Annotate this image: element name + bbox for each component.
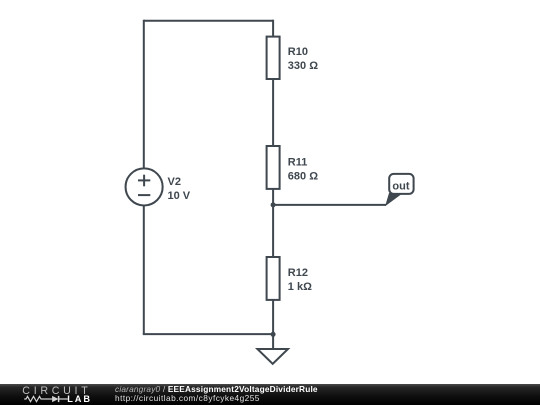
resistor R10 body bbox=[267, 37, 280, 79]
ground symbol triangle bbox=[257, 349, 288, 364]
label V2 value bbox=[168, 176, 191, 202]
label R11 value bbox=[288, 156, 318, 182]
wire top horizontal bbox=[144, 20, 273, 22]
footer credit line: user and circuit title bbox=[115, 385, 318, 393]
wire left lower (V2 negative terminal to bottom rail) bbox=[143, 205, 145, 334]
resistor R11 body bbox=[267, 146, 280, 189]
svg-text:1 kΩ: 1 kΩ bbox=[288, 281, 312, 293]
junction node at bottom rail bbox=[271, 332, 276, 337]
footer bar bbox=[0, 384, 540, 405]
wire right: R12 to bottom junction bbox=[272, 300, 274, 334]
wire right: R10 to R11 bbox=[272, 79, 274, 146]
wire right: top rail to R10 bbox=[272, 20, 274, 37]
node out flag box bbox=[389, 174, 413, 194]
wire right: R11 to R12 (through node out junction) bbox=[272, 189, 274, 257]
V2 minus sign bbox=[138, 194, 150, 196]
svg-text:out: out bbox=[392, 180, 409, 192]
svg-text:V2: V2 bbox=[168, 176, 181, 188]
ground stem wire bbox=[272, 334, 274, 349]
CircuitLab logo schematic squiggle (resistor + diode) bbox=[24, 395, 69, 403]
label R12 value bbox=[288, 267, 312, 293]
CircuitLab logo wordmark LAB bbox=[67, 395, 92, 404]
wire left upper (top rail to V2 positive terminal) bbox=[143, 20, 145, 169]
svg-text:R10: R10 bbox=[288, 46, 308, 58]
label R10 value bbox=[288, 46, 318, 72]
V2 plus sign bbox=[138, 175, 150, 187]
CircuitLab logo wordmark CIRCUIT bbox=[22, 386, 91, 397]
svg-text:10 V: 10 V bbox=[168, 190, 191, 202]
node out flag pointer bbox=[386, 194, 402, 206]
svg-text:R12: R12 bbox=[288, 267, 308, 279]
footer url line bbox=[115, 394, 260, 402]
wire: out node tap bbox=[273, 204, 386, 206]
resistor R12 body bbox=[267, 257, 280, 300]
junction node between R11 and R12 (out tap) bbox=[271, 202, 276, 207]
svg-text:R11: R11 bbox=[288, 156, 308, 168]
svg-text:330 Ω: 330 Ω bbox=[288, 60, 318, 72]
svg-text:680 Ω: 680 Ω bbox=[288, 170, 318, 182]
wire bottom horizontal bbox=[143, 333, 273, 335]
voltage source V2 circle body bbox=[126, 168, 163, 205]
